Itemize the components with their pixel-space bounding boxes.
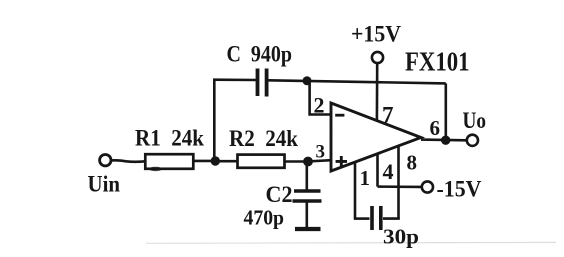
svg-text:C 940p: C 940p bbox=[227, 41, 293, 66]
wire input Uin to R1 bbox=[112, 160, 146, 161]
svg-text:470p: 470p bbox=[244, 205, 285, 229]
wire capacitor 30p to pin 8 bbox=[383, 217, 400, 220]
svg-text:Uin: Uin bbox=[88, 172, 121, 197]
svg-text:FX101: FX101 bbox=[405, 47, 470, 77]
wire rail right corner down to output node bbox=[444, 83, 447, 140]
wire rail right segment from C to right corner bbox=[269, 80, 446, 83]
wire node B to op-amp pin 3 bbox=[307, 160, 331, 161]
wire R2 to node B bbox=[285, 160, 307, 163]
wire node C down into op-amp pin 2 bbox=[310, 81, 331, 115]
svg-text:C2: C2 bbox=[266, 182, 293, 207]
svg-text:+15V: +15V bbox=[351, 21, 401, 46]
node A (R1/R2/C junction) bbox=[211, 156, 220, 165]
wire pin 1 to capacitor 30p bbox=[354, 217, 370, 220]
wire rail left segment to capacitor C bbox=[213, 78, 256, 81]
terminal Uin bbox=[100, 155, 111, 166]
wire R1 to node A bbox=[192, 160, 215, 163]
wire node A to R2 bbox=[215, 160, 237, 163]
terminal +15V bbox=[372, 52, 383, 63]
wire op-amp pin 1 down bbox=[354, 162, 357, 219]
ground bbox=[295, 227, 321, 231]
wire op-amp pin 6 to Uo terminal bbox=[421, 138, 466, 141]
svg-text:6: 6 bbox=[430, 116, 441, 140]
wire node B down to capacitor C2 bbox=[305, 162, 308, 191]
minus sign inverting input bbox=[335, 114, 344, 117]
node B (R2/C2/pin3 junction) bbox=[303, 157, 313, 167]
svg-text:Uo: Uo bbox=[463, 108, 487, 133]
resistor R1 bbox=[145, 154, 193, 169]
terminal -15V bbox=[422, 181, 433, 192]
svg-text:4: 4 bbox=[383, 159, 394, 184]
plus sign non-inverting input bbox=[336, 156, 347, 167]
node C (rail / pin2 junction) bbox=[303, 76, 312, 85]
node D (output junction) bbox=[441, 136, 450, 145]
wire pin 4 to -15V terminal bbox=[378, 185, 422, 188]
terminal Uo bbox=[467, 135, 478, 146]
svg-text:8: 8 bbox=[407, 150, 418, 174]
svg-text:3: 3 bbox=[316, 142, 326, 163]
capacitor C2 plates bbox=[294, 189, 321, 193]
wire op-amp pin 8 down bbox=[397, 146, 400, 219]
svg-text:R1 24k: R1 24k bbox=[135, 126, 204, 151]
resistor R2 bbox=[238, 155, 285, 168]
wire node A up to feedback rail bbox=[213, 80, 216, 161]
svg-text:2: 2 bbox=[314, 93, 325, 118]
svg-text:-15V: -15V bbox=[437, 177, 482, 202]
svg-text:1: 1 bbox=[360, 166, 371, 190]
wire +15V down through rail to pin 7 bbox=[376, 64, 379, 121]
svg-text:R2 24k: R2 24k bbox=[229, 126, 298, 151]
wire op-amp pin 4 down bbox=[376, 153, 379, 186]
svg-text:30p: 30p bbox=[383, 225, 419, 249]
capacitor C plates bbox=[256, 69, 260, 97]
op-amp U1 FX101 triangle bbox=[331, 103, 421, 171]
wire C2 down to ground bbox=[305, 201, 308, 228]
svg-text:7: 7 bbox=[382, 103, 394, 128]
capacitor 30p plates bbox=[370, 206, 374, 230]
